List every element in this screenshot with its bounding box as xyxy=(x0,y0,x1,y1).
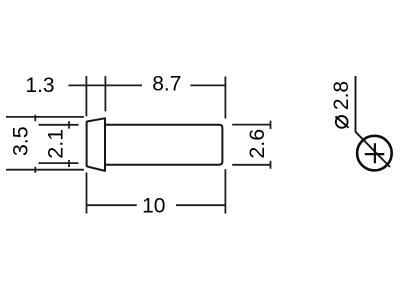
wire 2.1 dimension line ticks xyxy=(68,121,70,167)
wire 3.5 dimension line ticks xyxy=(34,115,36,173)
wire top dimension line right segment xyxy=(191,84,227,86)
wire 2.1 extension bottom xyxy=(39,162,79,164)
wire 2.6 dimension line ticks xyxy=(270,121,272,169)
wire 3.5 extension top xyxy=(6,116,84,118)
leader line for diameter callout xyxy=(356,76,391,167)
wire 2.6 extension bottom xyxy=(232,164,270,166)
pin shaft xyxy=(105,125,222,165)
svg-text:2.8: 2.8 xyxy=(330,81,353,110)
wire top dimension line left segment xyxy=(68,84,142,86)
wire bottom dimension line right segment xyxy=(176,204,225,206)
detail circle end view xyxy=(357,136,392,171)
svg-text:3.5: 3.5 xyxy=(9,126,33,156)
svg-text:8.7: 8.7 xyxy=(152,73,181,96)
svg-text:2.1: 2.1 xyxy=(44,129,68,159)
wire 3.5 extension bottom xyxy=(6,169,84,171)
wire extension line bottom left xyxy=(86,172,88,213)
wire extension line bottom right xyxy=(224,169,226,213)
svg-text:1.3: 1.3 xyxy=(25,74,54,97)
center mark cross xyxy=(365,143,385,163)
wire extension line head-shaft junction xyxy=(104,76,106,111)
svg-text:10: 10 xyxy=(142,195,165,218)
svg-text:2.6: 2.6 xyxy=(245,129,269,159)
wire extension line head left face xyxy=(85,76,87,116)
diameter symbol xyxy=(335,116,348,128)
wire 2.6 extension top xyxy=(232,124,270,126)
wire 2.1 extension top xyxy=(39,124,79,126)
wire extension line shaft end top xyxy=(224,77,226,119)
pin head xyxy=(87,118,105,171)
wire bottom dimension line left segment xyxy=(87,204,137,206)
